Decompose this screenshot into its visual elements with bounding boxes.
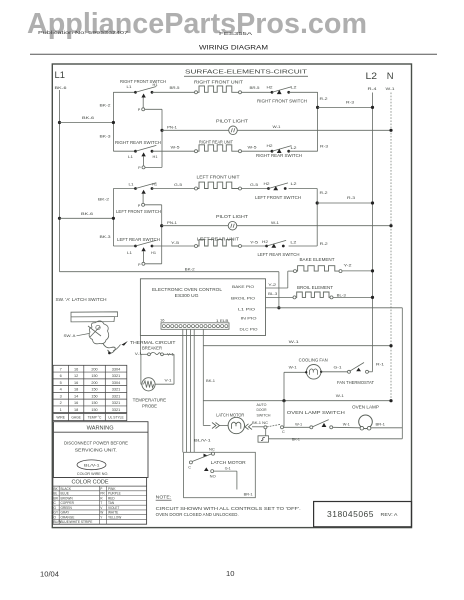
svg-text:PURPLE: PURPLE <box>108 492 121 496</box>
svg-text:R-4: R-4 <box>368 86 378 91</box>
svg-text:BK-1: BK-1 <box>206 378 216 383</box>
svg-text:RIGHT FRONT UNIT: RIGHT FRONT UNIT <box>194 80 244 85</box>
junction dot on N bus <box>389 129 392 132</box>
svg-text:150: 150 <box>91 374 97 378</box>
door latch switch box <box>184 452 256 497</box>
wire pilot bus vertical rows3-4 <box>161 205 163 264</box>
connector chevrons after latch motor <box>245 424 252 430</box>
svg-text:W-1: W-1 <box>273 124 282 129</box>
svg-text:R-3: R-3 <box>347 195 356 200</box>
svg-text:PN-1: PN-1 <box>167 124 178 129</box>
svg-text:DOOR: DOOR <box>257 407 267 412</box>
svg-text:RIGHT REAR SWITCH: RIGHT REAR SWITCH <box>115 140 161 145</box>
wire to cooling fan <box>284 371 306 373</box>
svg-text:ES300 UG: ES300 UG <box>175 293 199 298</box>
svg-text:7: 7 <box>60 367 62 371</box>
connector chevrons to latch motor <box>212 423 220 429</box>
svg-text:3304: 3304 <box>112 381 120 385</box>
svg-text:BLUE: BLUE <box>61 492 69 496</box>
wire pilot1 to N bus W-1 <box>237 129 391 131</box>
svg-text:LATCH MOTOR: LATCH MOTOR <box>216 412 244 417</box>
svg-text:H2: H2 <box>267 85 273 89</box>
svg-text:WHITE: WHITE <box>108 511 118 515</box>
wire door switch to fuse <box>265 429 267 436</box>
svg-text:LEFT REAR UNIT: LEFT REAR UNIT <box>197 236 240 241</box>
svg-text:BK-1 NC: BK-1 NC <box>252 420 268 425</box>
svg-text:WIRING DIAGRAM: WIRING DIAGRAM <box>199 45 268 52</box>
wire L2 side row3 to R-2 vertical <box>289 188 318 190</box>
wire broil element to L2 bus <box>333 296 373 298</box>
cooling fan motor M1 <box>306 365 321 380</box>
svg-text:H1: H1 <box>151 251 156 255</box>
svg-text:ELECTRONIC OVEN CONTROL: ELECTRONIC OVEN CONTROL <box>152 287 223 292</box>
junction dot broil on L2 bus <box>371 296 374 299</box>
svg-text:3321: 3321 <box>112 374 120 378</box>
wire P row2 to pilot bus <box>145 166 162 168</box>
svg-text:6: 6 <box>60 374 62 378</box>
wire fan feed vertical <box>283 372 285 400</box>
svg-text:L2: L2 <box>291 146 297 150</box>
wire door switch to oven lamp switch <box>284 426 310 428</box>
svg-text:150: 150 <box>91 388 97 392</box>
svg-text:NO: NO <box>210 474 216 479</box>
svg-text:NOTE:: NOTE: <box>156 495 172 500</box>
svg-text:H2: H2 <box>262 240 268 244</box>
pilot terminal P row4 <box>142 262 145 265</box>
svg-text:R-1: R-1 <box>376 362 385 367</box>
EOC connector strip <box>161 323 229 330</box>
svg-text:PINK: PINK <box>108 487 116 491</box>
svg-text:10: 10 <box>226 569 234 578</box>
svg-text:BL: BL <box>54 492 58 496</box>
svg-text:W-1: W-1 <box>289 339 300 344</box>
svg-text:L1: L1 <box>127 251 132 255</box>
svg-text:REV: A: REV: A <box>381 512 398 517</box>
svg-text:DLC PIO: DLC PIO <box>240 327 258 332</box>
svg-text:P: P <box>138 166 141 170</box>
svg-text:RIGHT FRONT SWITCH: RIGHT FRONT SWITCH <box>120 79 166 84</box>
wire harness drop 4 <box>193 329 195 452</box>
svg-text:16: 16 <box>74 401 78 405</box>
svg-text:GREEN: GREEN <box>61 506 73 510</box>
svg-text:OVEN DOOR CLOSED AND UNLOCKED.: OVEN DOOR CLOSED AND UNLOCKED. <box>156 512 239 517</box>
svg-text:RIGHT FRONT SWITCH: RIGHT FRONT SWITCH <box>257 99 307 104</box>
wire R-3 to L2 bus rows3-4 <box>317 202 372 204</box>
svg-text:BL-3: BL-3 <box>268 291 278 296</box>
svg-text:LEFT FRONT SWITCH: LEFT FRONT SWITCH <box>255 195 301 200</box>
wire pilot2 to N bus W-1 <box>237 225 391 227</box>
wire down to auto door switch <box>283 401 285 427</box>
junction dot pilot2 feed <box>160 224 163 227</box>
svg-text:V-1: V-1 <box>165 378 172 383</box>
junction dot on L2 bus <box>371 201 374 204</box>
wire breaker to probe right <box>163 353 174 355</box>
svg-text:P: P <box>138 108 141 112</box>
latch switch body sketch <box>89 321 109 344</box>
svg-text:COPPER: COPPER <box>61 501 75 505</box>
wire lamp switch to oven lamp <box>333 426 361 429</box>
svg-text:BAKE PIO: BAKE PIO <box>232 284 254 289</box>
color code table <box>53 478 147 525</box>
svg-text:Y-5: Y-5 <box>250 239 259 244</box>
wire bake element to L2 bus <box>342 270 373 272</box>
latch switch blade <box>192 454 212 462</box>
svg-text:W-1: W-1 <box>343 421 351 426</box>
svg-text:L2: L2 <box>291 182 297 186</box>
svg-text:Y-5: Y-5 <box>171 240 180 245</box>
junction dot L1 PIO <box>277 306 280 309</box>
temperature probe RT1 <box>142 378 155 391</box>
svg-text:PILOT LIGHT: PILOT LIGHT <box>216 214 249 219</box>
wire L2 side row2 to R-2 vertical <box>289 150 318 152</box>
svg-text:TEMPERATURE: TEMPERATURE <box>133 398 167 403</box>
svg-text:L2: L2 <box>291 85 297 89</box>
svg-text:BR-1: BR-1 <box>244 491 253 496</box>
svg-text:COLOR CODE: COLOR CODE <box>72 480 110 486</box>
svg-text:FAN THERMOSTAT: FAN THERMOSTAT <box>337 380 374 385</box>
wire stub to left front switch <box>113 188 135 190</box>
svg-text:RIGHT REAR UNIT: RIGHT REAR UNIT <box>199 140 233 145</box>
wire oven lamp to right vertical <box>371 427 402 429</box>
wire L2 side row1 to R-2 vertical <box>289 91 318 93</box>
svg-text:R-2: R-2 <box>320 96 329 101</box>
junction dot pilot1 feed <box>160 129 163 132</box>
svg-text:BR-5: BR-5 <box>250 85 261 90</box>
wire stub to left rear switch <box>113 245 135 247</box>
svg-text:BK-2: BK-2 <box>185 266 196 271</box>
svg-text:1 ELB: 1 ELB <box>216 318 229 323</box>
color wire number ellipse <box>77 460 106 470</box>
pilot terminal P row2 <box>142 166 145 169</box>
pilot terminal P row1 <box>142 108 145 111</box>
latch switch pigtail wire sketch <box>103 344 115 354</box>
junction dot fan/door switch node <box>282 399 285 402</box>
svg-text:BL-3: BL-3 <box>337 292 347 297</box>
svg-text:W-1: W-1 <box>271 220 280 225</box>
svg-text:GRAY: GRAY <box>61 511 71 515</box>
junction dot bus2b <box>112 217 115 220</box>
wire PN-1 to pilot light 2 <box>162 225 229 227</box>
thermal fuse F1 <box>258 436 269 442</box>
wire W-1 to N bus <box>203 345 391 347</box>
svg-text:NC: NC <box>209 447 215 452</box>
svg-text:UL STYLE: UL STYLE <box>108 416 124 420</box>
wire bus2a vertical BK-2/BK-3 <box>112 92 114 151</box>
wire BK-6 horizontal rows3-4 <box>60 217 114 219</box>
svg-text:BL/V-1: BL/V-1 <box>84 462 100 467</box>
svg-text:G-1: G-1 <box>334 364 343 369</box>
svg-text:200: 200 <box>91 381 97 385</box>
wire breaker left down to probe <box>140 354 142 384</box>
svg-text:W-1: W-1 <box>336 393 345 398</box>
wire BK-2 long horizontal from L1 bus <box>60 271 279 273</box>
svg-text:L2: L2 <box>290 240 296 244</box>
thermal circuit breaker CB1 <box>148 353 151 356</box>
svg-text:BR-1: BR-1 <box>376 421 386 426</box>
wire BK-6 horizontal <box>60 122 114 124</box>
svg-text:BROWN: BROWN <box>61 496 74 500</box>
svg-text:SERVICING UNIT.: SERVICING UNIT. <box>75 448 117 453</box>
svg-text:BROIL PIO: BROIL PIO <box>231 295 255 300</box>
wire P row4 to pilot bus <box>145 263 162 265</box>
svg-text:G-5: G-5 <box>174 182 183 187</box>
svg-text:GAGE: GAGE <box>71 416 81 420</box>
junction dot L1 bus row1-2 tap <box>58 121 61 124</box>
junction dot R-3 tap rows3-4 <box>316 201 319 204</box>
svg-text:PILOT LIGHT: PILOT LIGHT <box>216 119 249 124</box>
latch switch C contact <box>189 461 192 464</box>
svg-text:BREAKER: BREAKER <box>142 345 162 350</box>
svg-text:COOLING FAN: COOLING FAN <box>299 358 328 363</box>
junction dot R-3 tap <box>316 106 319 109</box>
svg-text:3304: 3304 <box>112 367 120 371</box>
svg-text:OVEN LAMP: OVEN LAMP <box>352 404 379 409</box>
junction dot on N bus <box>389 224 392 227</box>
svg-text:BK-2: BK-2 <box>100 103 112 108</box>
wire bus2b vertical rows3-4 <box>112 189 114 247</box>
wire H1 to element <box>152 91 195 93</box>
svg-text:200: 200 <box>91 367 97 371</box>
svg-text:COLOR WIRE NO.: COLOR WIRE NO. <box>77 471 109 476</box>
svg-text:4: 4 <box>60 388 62 392</box>
wire L1 PIO to right side vertical <box>279 307 402 309</box>
svg-text:150: 150 <box>91 394 97 398</box>
svg-text:16: 16 <box>74 367 78 371</box>
svg-text:R-3: R-3 <box>320 144 329 149</box>
electronic oven control EOC box <box>140 279 265 336</box>
outer border frame <box>52 64 411 528</box>
pilot terminal P row3 <box>142 203 145 206</box>
wire PN-1 to pilot light <box>162 129 229 131</box>
svg-text:150: 150 <box>91 408 97 412</box>
svg-text:BK-3: BK-3 <box>100 134 112 139</box>
svg-text:SWITCH: SWITCH <box>257 412 271 417</box>
svg-text:L1: L1 <box>55 69 66 80</box>
svg-text:3: 3 <box>60 394 62 398</box>
svg-text:RIGHT REAR SWITCH: RIGHT REAR SWITCH <box>256 153 302 158</box>
svg-text:18: 18 <box>74 388 78 392</box>
svg-text:L1: L1 <box>128 155 133 159</box>
svg-text:SURFACE-ELEMENTS-CIRCUIT: SURFACE-ELEMENTS-CIRCUIT <box>185 69 308 75</box>
svg-text:C: C <box>188 466 191 470</box>
svg-text:R-2: R-2 <box>320 190 329 195</box>
svg-text:LEFT FRONT SWITCH: LEFT FRONT SWITCH <box>116 209 161 214</box>
svg-text:C: C <box>282 430 285 434</box>
auto door switch <box>264 426 267 429</box>
wire N bus vertical (dashed) <box>390 93 392 401</box>
svg-text:OVEN LAMP SWITCH: OVEN LAMP SWITCH <box>287 410 345 415</box>
svg-text:1: 1 <box>60 408 62 412</box>
wire EOC to thermal breaker <box>139 336 141 355</box>
svg-text:LATCH MOTOR: LATCH MOTOR <box>211 460 246 465</box>
svg-text:BR: BR <box>54 496 59 500</box>
oven lamp LP1 <box>359 415 373 429</box>
svg-text:Y-2: Y-2 <box>344 262 353 267</box>
svg-text:3321: 3321 <box>112 388 120 392</box>
wire L1 PIO exit <box>266 307 279 309</box>
svg-text:18: 18 <box>74 408 78 412</box>
latch motor M2 <box>228 417 244 433</box>
svg-text:TEMP °C: TEMP °C <box>88 416 102 420</box>
svg-text:W-5: W-5 <box>171 145 181 150</box>
svg-text:PROBE: PROBE <box>142 404 157 409</box>
wire L1 bus vertical <box>59 90 61 272</box>
wire R-2 vertical rows3-4 <box>316 189 318 247</box>
svg-text:T: T <box>100 501 102 505</box>
wire L2 bus vertical <box>372 93 374 372</box>
svg-text:BR-5: BR-5 <box>170 85 181 90</box>
svg-text:L1: L1 <box>127 85 132 89</box>
svg-text:VIOLET: VIOLET <box>108 506 119 510</box>
svg-text:BAKE ELEMENT: BAKE ELEMENT <box>300 257 335 262</box>
svg-text:3321: 3321 <box>112 401 120 405</box>
svg-text:LEFT REAR SWITCH: LEFT REAR SWITCH <box>258 252 300 257</box>
junction dot W-1 on N bus <box>389 344 392 347</box>
svg-text:CIRCUIT SHOWN WITH ALL CONTROL: CIRCUIT SHOWN WITH ALL CONTROLS SET TO '… <box>156 506 301 511</box>
wire P row3 to pilot bus <box>145 204 162 206</box>
svg-text:Publication No: 5995362407: Publication No: 5995362407 <box>38 30 129 35</box>
svg-text:WIRE: WIRE <box>56 416 65 420</box>
svg-text:ORANGE: ORANGE <box>61 515 75 519</box>
svg-text:12: 12 <box>74 374 78 378</box>
svg-text:BK-6: BK-6 <box>55 85 68 90</box>
svg-text:H1: H1 <box>153 83 158 87</box>
arrow to thermal circuit breaker <box>121 341 127 346</box>
svg-text:G-5: G-5 <box>250 182 259 187</box>
junction dot bus2a <box>112 121 115 124</box>
svg-text:3321: 3321 <box>112 394 120 398</box>
wire element to H2 <box>242 91 273 93</box>
svg-text:AppliancePartsPros.com: AppliancePartsPros.com <box>27 8 367 40</box>
svg-text:PN-1: PN-1 <box>167 220 178 225</box>
svg-text:H1: H1 <box>153 155 158 159</box>
svg-text:BK-1: BK-1 <box>292 437 301 442</box>
oven lamp switch <box>310 426 313 429</box>
wire oven lamp row horizontal <box>203 400 391 402</box>
wire BAKE PIO exit <box>266 287 288 289</box>
svg-text:LEFT FRONT UNIT: LEFT FRONT UNIT <box>197 174 241 179</box>
svg-text:BLACK: BLACK <box>61 487 72 491</box>
svg-text:W-1: W-1 <box>295 421 303 426</box>
svg-text:BK-2: BK-2 <box>98 197 110 202</box>
wire fan to thermostat <box>321 371 347 373</box>
wire harness drop 3 <box>189 329 191 452</box>
svg-text:SW. A: SW. A <box>64 333 76 338</box>
svg-text:BK-3: BK-3 <box>100 234 112 239</box>
svg-text:WARNING: WARNING <box>87 426 114 432</box>
warning box <box>54 422 149 478</box>
svg-text:Y-2: Y-2 <box>268 282 277 287</box>
svg-text:SW. 'A' LATCH SWITCH: SW. 'A' LATCH SWITCH <box>56 297 107 302</box>
wire H1 to element row3 <box>152 188 195 190</box>
svg-text:L2: L2 <box>366 70 378 81</box>
svg-text:N: N <box>387 70 394 81</box>
svg-text:YELLOW: YELLOW <box>108 515 121 519</box>
part number box 318045065 <box>314 502 412 527</box>
svg-text:W-1: W-1 <box>386 86 396 91</box>
svg-text:IN PIO: IN PIO <box>241 315 257 320</box>
svg-text:G-1: G-1 <box>225 466 231 470</box>
svg-text:H2: H2 <box>264 182 270 186</box>
wire stub to right rear switch <box>113 150 135 152</box>
wire element to H2 row2 <box>242 150 273 152</box>
svg-text:16: 16 <box>74 381 78 385</box>
wire harness drop 2 <box>186 329 188 452</box>
svg-text:14: 14 <box>74 394 78 398</box>
wire gauge table <box>53 365 127 412</box>
svg-text:R-3: R-3 <box>346 100 355 105</box>
svg-text:3321: 3321 <box>112 408 120 412</box>
wire pilot bus vertical rows1-2 <box>161 109 163 167</box>
svg-text:10/04: 10/04 <box>40 570 59 579</box>
latch switch NC contact <box>212 452 215 455</box>
svg-text:5: 5 <box>60 381 62 385</box>
wire H1 to element row2 <box>152 150 195 152</box>
svg-text:H2: H2 <box>267 144 273 148</box>
header separator line <box>30 53 437 55</box>
wire NO contact <box>214 470 237 472</box>
wire to latch motor <box>202 424 204 427</box>
wire L2 side row4 to R-2 vertical <box>289 245 318 247</box>
svg-text:W: W <box>100 511 103 515</box>
svg-text:318045065: 318045065 <box>327 509 374 519</box>
junction dot L1 bus rows3-4 tap <box>58 217 61 220</box>
svg-text:W-1: W-1 <box>289 364 298 369</box>
svg-text:2: 2 <box>60 401 62 405</box>
svg-text:BK-6: BK-6 <box>81 211 94 216</box>
wire right side vertical BK-2 <box>401 308 403 439</box>
svg-text:PR: PR <box>100 492 105 496</box>
wire element to H2 row4 <box>242 245 267 247</box>
wire stub to right front switch <box>113 91 135 93</box>
svg-text:BL/V-1: BL/V-1 <box>194 437 212 442</box>
wire BROIL PIO exit <box>266 296 294 298</box>
svg-text:R-2: R-2 <box>320 241 329 246</box>
wire R-3 to L2 bus <box>318 106 373 108</box>
junction dot bake on L2 bus <box>371 269 374 272</box>
latch switch bracket sketch <box>71 312 118 322</box>
wire BK-2 vertical to L1 PIO <box>278 272 280 308</box>
junction dot on L2 bus <box>371 106 374 109</box>
wire fuse to right vertical BK-1 <box>269 438 403 440</box>
wire harness drop 1 <box>182 329 184 452</box>
svg-text:16: 16 <box>160 317 165 322</box>
svg-text:L1 PIO: L1 PIO <box>238 307 255 312</box>
junction dot oven lamp row on N bus <box>389 399 392 402</box>
wire P row1 to pilot bus <box>145 108 162 110</box>
svg-text:150: 150 <box>91 401 97 405</box>
svg-text:BROIL ELEMENT: BROIL ELEMENT <box>297 285 333 290</box>
latch switch NO contact <box>211 470 214 473</box>
svg-text:P: P <box>100 487 102 491</box>
svg-text:BK-6: BK-6 <box>82 115 95 120</box>
svg-text:L1: L1 <box>129 183 134 187</box>
svg-text:RED: RED <box>108 496 115 500</box>
wire element to H2 row3 <box>242 188 269 190</box>
svg-text:DISCONNECT POWER BEFORE: DISCONNECT POWER BEFORE <box>64 441 128 446</box>
svg-text:W-5: W-5 <box>248 145 258 150</box>
wire H1 to element row4 <box>152 245 195 247</box>
svg-text:BLUE/WHITE STRIPE: BLUE/WHITE STRIPE <box>61 520 93 524</box>
wire harness drop 5 BK-1 <box>202 329 204 425</box>
wire thermostat to L2 bus <box>369 371 373 373</box>
svg-text:FES355A: FES355A <box>219 31 253 37</box>
wire R-2 vertical rows1-2 <box>317 92 319 151</box>
svg-text:TAN: TAN <box>108 501 115 505</box>
